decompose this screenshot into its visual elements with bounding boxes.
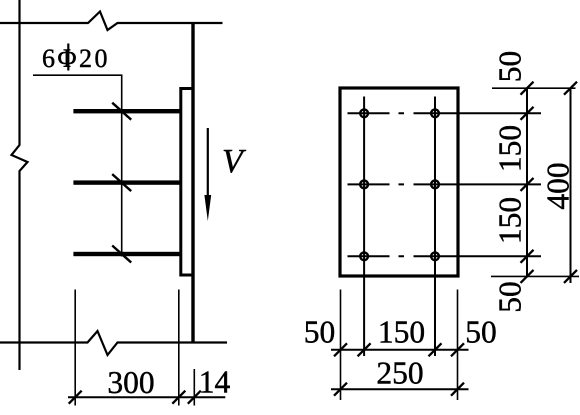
svg-text:6Φ20: 6Φ20: [42, 44, 110, 73]
svg-text:400: 400: [541, 162, 576, 209]
dim tick: [564, 270, 577, 283]
dim tick: [188, 391, 201, 404]
svg-text:50: 50: [493, 51, 528, 83]
svg-text:50: 50: [493, 281, 528, 313]
svg-text:150: 150: [378, 315, 425, 350]
bolt C1: [360, 252, 368, 260]
svg-text:150: 150: [493, 197, 528, 244]
dimension line 300/14: [68, 396, 225, 398]
extension line plate left: [340, 290, 342, 401]
dim tick: [358, 343, 371, 356]
column top edge line with break symbol: [0, 12, 223, 31]
svg-text:50: 50: [465, 315, 497, 350]
anchor bar 3: [73, 252, 181, 256]
extension line at bar ends: [74, 290, 76, 406]
dim tick: [521, 178, 534, 191]
extension line at plate front face: [193, 369, 195, 406]
anchor bar 1: [73, 109, 181, 113]
svg-text:150: 150: [493, 125, 528, 172]
bolt column centerline 1: [363, 97, 365, 357]
dim tick: [69, 391, 82, 404]
extension line plate top: [492, 87, 576, 89]
dim tick: [521, 250, 534, 263]
leader tick on bar 2: [112, 174, 131, 191]
svg-text:250: 250: [376, 356, 423, 391]
bolt A2: [431, 109, 439, 117]
dim tick: [451, 383, 464, 396]
embedded plate (side view): [181, 89, 193, 276]
dim tick: [451, 343, 464, 356]
extension line plate bottom: [491, 275, 579, 277]
column face line: [191, 23, 194, 343]
bolt row centerline 3 (dash-dot): [348, 255, 542, 257]
dim tick: [521, 107, 534, 120]
dim tick: [429, 343, 442, 356]
column bottom edge line with break symbol: [0, 331, 227, 355]
dim tick: [334, 383, 347, 396]
leader line for 6phi20: [33, 75, 122, 256]
shear force arrow: [207, 128, 209, 198]
bottom overall dimension line 250: [331, 388, 469, 390]
vertical dimension chain line: [526, 88, 528, 276]
column left edge line with break symbol: [12, 0, 28, 370]
bottom dimension chain line: [331, 349, 469, 351]
svg-text:14: 14: [199, 365, 231, 400]
phi symbol stem extension: [67, 44, 69, 71]
leader tick on bar 1: [112, 103, 131, 120]
extension line plate right: [457, 290, 459, 401]
bolt row centerline 1 (dash-dot): [348, 112, 542, 114]
dim tick: [521, 270, 534, 283]
svg-text:300: 300: [107, 365, 154, 400]
dim tick: [334, 343, 347, 356]
svg-text:50: 50: [304, 315, 336, 350]
dim tick: [521, 82, 534, 95]
leader tick on bar 3: [112, 246, 131, 263]
bolt row centerline 2 (dash-dot): [348, 183, 542, 185]
bolt B2: [431, 181, 439, 189]
bolt C2: [431, 252, 439, 260]
dim tick: [564, 82, 577, 95]
overall vertical dimension line 400: [570, 88, 572, 283]
bolt column centerline 2: [434, 97, 436, 357]
anchor bar 2: [73, 180, 181, 184]
plate front view outline: [340, 88, 458, 276]
dim tick: [172, 391, 185, 404]
bolt B1: [360, 181, 368, 189]
bolt A1: [360, 109, 368, 117]
extension line at plate back face: [178, 290, 180, 406]
